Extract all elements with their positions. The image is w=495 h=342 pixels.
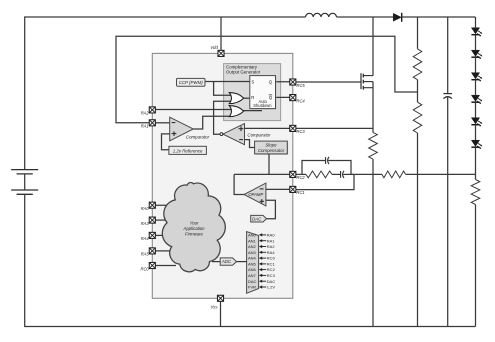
wire: OR2 output to auto-shutdown <box>244 110 263 112</box>
wire: LED interconnect <box>475 102 477 118</box>
wire: Vout rail from diode to LED string <box>402 16 476 18</box>
svg-text:DAC: DAC <box>252 216 262 221</box>
wire: current-sense resistor to ground rail <box>372 159 374 326</box>
mux channel DAC from DAC <box>248 279 275 284</box>
mux channel AN5 from RC1 <box>248 261 276 266</box>
svg-text:Comparator: Comparator <box>186 135 210 140</box>
LED D3 <box>471 50 482 59</box>
svg-text:RA2: RA2 <box>141 111 150 116</box>
1.2v Reference block <box>169 146 207 154</box>
svg-text:1.2V: 1.2V <box>267 285 276 290</box>
OR gate G2 (auto-shutdown) <box>229 106 243 117</box>
svg-text:1.2v Reference: 1.2v Reference <box>173 148 203 153</box>
wire: MOSFET source to current-sense resistor <box>372 82 374 133</box>
wire: RC3 to current-sense node <box>293 127 373 129</box>
svg-text:RA0: RA0 <box>141 206 150 211</box>
resistor R1 (upper divider) <box>413 49 422 80</box>
capacitor C3 (compensation series) <box>341 171 344 178</box>
svg-text:OPAMP: OPAMP <box>248 192 263 197</box>
pin RA1 <box>141 120 156 129</box>
wire: RC2 to compensation node <box>293 173 306 175</box>
svg-text:RC3: RC3 <box>267 273 276 278</box>
microcontroller U1 (PIC) body <box>152 53 292 298</box>
wire: divider bottom to ground rail <box>417 133 419 327</box>
svg-text:Output Generator: Output Generator <box>226 69 261 74</box>
wire: R6 to LED sense node <box>406 173 476 175</box>
wire: RA4 stub to firmware cloud <box>155 234 168 236</box>
wire: opamp output riser <box>234 174 244 194</box>
transistor Q1 (NMOS) <box>361 73 373 89</box>
wire: divider midpoint <box>417 80 419 103</box>
wire: C2 to node A drop <box>328 161 351 175</box>
wire: RC0 stub to firmware cloud <box>155 265 176 267</box>
wire: OR1 output to latch R input <box>244 97 250 99</box>
svg-text:AN7: AN7 <box>248 273 257 278</box>
wire: divider top branch from Vout rail <box>417 17 419 49</box>
svg-text:Firmware: Firmware <box>185 232 204 237</box>
svg-text:AN4: AN4 <box>248 256 257 261</box>
LED D7 <box>471 140 482 149</box>
firmware cloud <box>162 183 225 272</box>
mux channel AN2 from RA2 <box>248 244 275 249</box>
svg-text:S: S <box>251 79 254 84</box>
wire: comparator2 output to OR1 lower input <box>214 101 232 134</box>
resistor R4 (switch current sense) <box>369 132 378 159</box>
wire: LED interconnect <box>475 80 477 96</box>
wire: CCP output to latch S input <box>205 81 250 83</box>
capacitor C1 (output) <box>443 94 452 99</box>
mux channel AN7 from RC3 <box>248 273 276 278</box>
wire: LED interconnect <box>475 125 477 141</box>
inductor L1 <box>306 13 337 17</box>
svg-text:RA1: RA1 <box>141 124 149 129</box>
svg-text:CCP (PWM): CCP (PWM) <box>179 80 204 85</box>
svg-text:ADC: ADC <box>221 259 232 264</box>
svg-text:RC0: RC0 <box>140 266 149 271</box>
wire: battery negative and ground rail <box>25 194 476 326</box>
LED D5 <box>471 95 482 104</box>
wire: LED interconnect <box>475 57 477 72</box>
LED D4 <box>471 73 482 82</box>
svg-text:RA0: RA0 <box>267 233 276 238</box>
capacitor C2 (compensation parallel) <box>326 157 329 164</box>
svg-text:Vss: Vss <box>211 304 219 309</box>
svg-text:RA1: RA1 <box>267 238 276 243</box>
svg-text:Shutdown: Shutdown <box>253 103 272 108</box>
LED D2 <box>471 28 482 37</box>
wire: R3 to C3 <box>332 173 341 175</box>
wire: ADC to analog mux <box>237 261 247 263</box>
wire: node A to R6 <box>351 173 382 175</box>
firmware cloud caption <box>182 220 205 236</box>
wire: Vss to ground rail <box>220 301 222 326</box>
DAC block <box>251 215 267 222</box>
Slope Compensator block <box>255 141 289 155</box>
wire: output capacitor branch from Vout rail <box>447 17 449 93</box>
wire: RA1 to comparator1 minus input <box>155 122 170 124</box>
svg-text:RC3: RC3 <box>297 129 306 134</box>
svg-text:Application: Application <box>182 226 205 231</box>
resistor R6 (to LED sense node) <box>382 171 406 178</box>
svg-text:RC1: RC1 <box>267 261 276 266</box>
wire: RC5 to MOSFET gate <box>293 81 361 83</box>
CCP (PWM) block <box>177 78 206 86</box>
svg-text:RC5: RC5 <box>297 83 306 88</box>
wire: comparator1 output to OR2 lower input <box>193 116 231 129</box>
wire: RA3 stub to firmware cloud <box>155 219 170 221</box>
ADC block <box>220 258 236 265</box>
mux channel AN0 from RA0 <box>248 233 275 238</box>
pin Vss <box>211 295 224 309</box>
svg-text:AN0: AN0 <box>248 233 257 238</box>
resistor R3 (compensation) <box>306 171 332 178</box>
wire: comparator2 minus input to slope compensator <box>245 140 255 148</box>
pin RC5 <box>290 79 306 88</box>
COG block (Complementary Output Generator) <box>224 64 281 121</box>
svg-text:RC4: RC4 <box>297 98 306 103</box>
wire: comparator2 plus input to RC3 <box>245 127 293 129</box>
pin RC1 <box>290 186 305 195</box>
wire: LED string drop from Vout rail <box>475 17 477 28</box>
wire: Vdd riser from top rail <box>220 17 222 53</box>
svg-text:DAC: DAC <box>248 279 257 284</box>
svg-text:RA5: RA5 <box>141 252 150 257</box>
svg-text:Q: Q <box>269 95 273 100</box>
svg-text:AN3: AN3 <box>248 250 257 255</box>
wire: RC1 to node A <box>293 174 354 189</box>
svg-text:RA2: RA2 <box>267 244 276 249</box>
wire: firmware cloud to ADC <box>212 261 220 263</box>
wire: inductor to diode (switch node) <box>337 16 394 18</box>
svg-text:RA3: RA3 <box>141 221 150 226</box>
svg-text:RA4: RA4 <box>141 236 150 241</box>
analog input mux <box>247 232 259 294</box>
wire: sense resistor to ground rail <box>475 205 477 327</box>
pin RC2 <box>290 171 306 180</box>
wire: output capacitor to ground rail <box>447 97 449 327</box>
SR latch (with auto-shutdown) <box>250 76 277 110</box>
comparator 2 (PWM comparator, mirrored) <box>220 124 245 145</box>
svg-text:DAC: DAC <box>267 279 276 284</box>
svg-text:RC2: RC2 <box>297 175 306 180</box>
svg-text:AN6: AN6 <box>248 267 257 272</box>
pin RC3 <box>290 125 306 134</box>
pin RC0 <box>140 262 155 271</box>
svg-text:Compensator: Compensator <box>258 148 285 153</box>
svg-text:Q: Q <box>269 79 273 84</box>
svg-text:RC2: RC2 <box>267 267 276 272</box>
wire: RA5 stub to firmware cloud <box>155 250 170 252</box>
svg-text:RC0: RC0 <box>267 256 276 261</box>
mux channel AN6 from RC2 <box>248 267 276 272</box>
pin RA3 <box>141 217 156 226</box>
mux channel AN3 from RA4 <box>248 250 275 255</box>
battery BT1 <box>11 170 38 195</box>
svg-text:AN1: AN1 <box>248 238 257 243</box>
wire: LED interconnect <box>475 35 477 51</box>
pin RC4 <box>290 95 306 104</box>
wire: RA0 stub to firmware cloud <box>155 204 172 206</box>
OR gate G1 (set/restart) <box>229 93 243 104</box>
wire: RA2 to OR2 upper input <box>155 109 231 111</box>
svg-text:R: R <box>251 95 254 100</box>
mux channel FVR from 1.2V <box>248 285 275 290</box>
svg-text:Vdd: Vdd <box>210 45 218 50</box>
resistor R2 (lower divider) <box>413 102 422 133</box>
comparator 1 (current comparator) <box>170 117 194 141</box>
pin Vdd <box>210 45 224 56</box>
pin RA2 <box>141 107 156 116</box>
wire: feedback from divider midpoint to RA1 <box>116 36 418 123</box>
pin RA5 <box>141 248 156 257</box>
wire: upper compensation branch <box>302 161 326 175</box>
svg-text:AN2: AN2 <box>248 244 257 249</box>
wire: opamp minus input to RC1 <box>266 188 293 190</box>
pin RA4 <box>141 232 156 241</box>
wire: latch Q to RC5 <box>276 81 293 83</box>
svg-text:Comparator: Comparator <box>247 133 271 138</box>
mux channel AN1 from RA1 <box>248 238 275 243</box>
svg-text:FVR: FVR <box>248 285 256 290</box>
wire: C3 to node A <box>343 173 354 175</box>
op-amp U2 (error amplifier, mirrored) <box>244 183 266 206</box>
mux channel AN4 from RC0 <box>248 256 276 261</box>
LED D6 <box>471 118 482 127</box>
wire: LED cathode to sense resistor <box>475 147 477 179</box>
wire: slope compensator from opamp output node <box>268 154 270 175</box>
wire: comparator1 plus input to 1.2v reference <box>162 134 170 150</box>
wire: between battery cells <box>24 174 26 190</box>
wire: opamp plus input to DAC <box>266 200 276 219</box>
wire: latch Qbar to RC4 <box>276 96 293 98</box>
wire: battery positive up and top rail to inductor <box>25 17 306 170</box>
resistor R7 (LED current sense) <box>471 180 480 205</box>
svg-text:Your: Your <box>190 220 199 225</box>
wire: MOSFET drain riser to switch node <box>372 17 374 76</box>
wire: opamp output to RC2 <box>234 173 293 175</box>
svg-text:AN5: AN5 <box>248 261 257 266</box>
svg-text:RC1: RC1 <box>297 190 305 195</box>
pin RA0 <box>141 202 156 211</box>
diode D1 <box>393 13 402 22</box>
svg-text:RA4: RA4 <box>267 250 276 255</box>
wire: CCP branch to OR1 upper input <box>214 82 232 96</box>
